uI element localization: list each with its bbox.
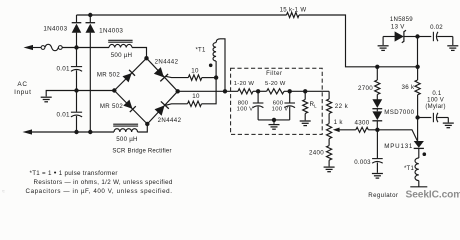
svg-text:2700: 2700 bbox=[358, 85, 373, 92]
junction: AC2 / cap column bbox=[74, 130, 78, 134]
resistor R7 2400 bbox=[327, 146, 332, 161]
junction: T1a return on main wire bbox=[223, 89, 227, 93]
svg-text:500 µH: 500 µH bbox=[111, 52, 133, 59]
junction: diode D2 top on rail bbox=[88, 13, 92, 17]
wire: 2400 to ground bbox=[328, 160, 330, 166]
svg-text:(Mylar): (Mylar) bbox=[425, 104, 445, 110]
svg-text:*T1: *T1 bbox=[404, 166, 415, 172]
ground: 0.003 bbox=[372, 173, 383, 175]
wire: lower gate up to T1a junction bbox=[202, 78, 217, 104]
svg-text:*T1: *T1 bbox=[195, 47, 206, 53]
svg-text:5-20 W: 5-20 W bbox=[265, 81, 286, 87]
AC input arrow (line 1) bbox=[24, 45, 34, 50]
wire: 2700 to MSD7000 bbox=[376, 95, 378, 100]
junction: bridge bottom node bbox=[145, 122, 149, 126]
junction: zener / 0.02 node bbox=[415, 34, 419, 38]
capacitor C4 600 100V bbox=[289, 91, 291, 102]
svg-text:1N5859: 1N5859 bbox=[390, 16, 413, 23]
transformer T1 primary winding bbox=[415, 158, 419, 181]
junction: C4 top bbox=[288, 89, 292, 93]
resistor R2 10 (lower gate) bbox=[188, 101, 202, 106]
ground: 2400 bbox=[324, 166, 335, 168]
wire: 4300 to MSD junction bbox=[368, 129, 377, 131]
wire: 2700 top lead bbox=[376, 67, 378, 80]
wire: MPU gate lead bbox=[377, 130, 417, 141]
wire: AC line 2 to bridge bottom node bbox=[138, 124, 148, 132]
svg-text:1 k: 1 k bbox=[334, 119, 344, 126]
pot wiper arrow bbox=[333, 128, 340, 133]
wire: R4 to RL and box exit bbox=[284, 90, 329, 92]
AC input arrow (line 2) bbox=[23, 129, 33, 134]
svg-text:100 V: 100 V bbox=[427, 97, 444, 103]
svg-text:1N4003: 1N4003 bbox=[99, 27, 123, 34]
wire: mid wire to bridge left node bbox=[77, 90, 115, 92]
svg-text:2N4442: 2N4442 bbox=[158, 117, 182, 124]
junction: bridge top node bbox=[144, 56, 148, 60]
svg-text:MR 502: MR 502 bbox=[97, 71, 120, 78]
wire: Q2 gate lead bbox=[166, 104, 188, 105]
wire: 22k to pot bbox=[328, 114, 330, 124]
svg-text:Filter: Filter bbox=[266, 71, 282, 77]
junction: gates / T1a winding bottom bbox=[214, 75, 218, 79]
wire: filter output down bbox=[328, 91, 330, 99]
wire: pot to 2400 bbox=[328, 139, 330, 146]
svg-text:15 k-1 W: 15 k-1 W bbox=[280, 6, 307, 13]
ground: zener anode bbox=[382, 37, 384, 46]
svg-text:Capacitors — in µF, 400 V, unl: Capacitors — in µF, 400 V, unless specif… bbox=[26, 188, 173, 195]
junction: bridge left node bbox=[112, 88, 116, 92]
diode D2 1N4003 bbox=[89, 15, 91, 22]
resistor R1 10 (upper gate) bbox=[188, 75, 202, 80]
diode D1 1N4003 bbox=[76, 15, 78, 22]
svg-text:22 k: 22 k bbox=[335, 103, 349, 110]
junction: 36k top on dc bus bbox=[415, 65, 419, 69]
svg-text:MR 502: MR 502 bbox=[100, 103, 123, 110]
ground: AC input bbox=[41, 96, 52, 98]
svg-text:1N4003: 1N4003 bbox=[43, 25, 67, 32]
junction: bridge right node bbox=[176, 89, 180, 93]
transformer T1 secondary winding bbox=[215, 61, 217, 78]
svg-text:MPU131: MPU131 bbox=[384, 143, 413, 150]
svg-text:2400: 2400 bbox=[309, 150, 324, 157]
svg-text:≈: ≈ bbox=[2, 189, 5, 195]
svg-text:36 k: 36 k bbox=[402, 84, 416, 91]
thyristor Q1 2N4442 (upper right arm) bbox=[153, 67, 168, 82]
ground: RL bbox=[300, 120, 311, 122]
fuse F1 bbox=[41, 46, 45, 50]
ground: 0.1 cap bbox=[443, 122, 454, 124]
resistor R3 1-20 W bbox=[238, 89, 253, 94]
inductor L2 500 uH bbox=[114, 129, 138, 132]
svg-text:100 V: 100 V bbox=[237, 107, 254, 113]
resistor 15 k-1 W on top rail bbox=[287, 12, 300, 17]
wire: filter cap bottom bus bbox=[258, 120, 290, 124]
capacitor C7 0.003 bbox=[376, 130, 378, 158]
svg-text:4300: 4300 bbox=[355, 120, 370, 127]
svg-text:500 µH: 500 µH bbox=[116, 136, 138, 143]
svg-text:0.003: 0.003 bbox=[354, 159, 371, 166]
svg-text:Resistors — in ohms, 1/2 W, un: Resistors — in ohms, 1/2 W, unless speci… bbox=[34, 179, 173, 186]
svg-text:0.1: 0.1 bbox=[432, 91, 442, 97]
wire: bridge arm left-top bbox=[114, 58, 146, 90]
wire: bridge arm top-right bbox=[147, 58, 178, 91]
diode D5 MSD7000 (upper) bbox=[372, 99, 382, 108]
svg-text:SCR Bridge Rectifier: SCR Bridge Rectifier bbox=[112, 148, 171, 154]
wire: Q1 gate lead bbox=[166, 76, 189, 77]
svg-text:AC: AC bbox=[17, 81, 27, 88]
junction: AC2 / D2 bbox=[88, 130, 92, 134]
wire: MPU anode lead bbox=[417, 118, 419, 142]
svg-text:0.01: 0.01 bbox=[57, 111, 71, 118]
ground: 0.02 bbox=[447, 45, 458, 47]
wire: upper gate to T1a bbox=[202, 77, 216, 79]
transistor Q3 MPU131 (PUT) bbox=[414, 141, 424, 148]
svg-text:13 V: 13 V bbox=[391, 23, 405, 30]
thyristor Q2 2N4442 (lower right arm) bbox=[154, 101, 169, 116]
svg-text:0.01: 0.01 bbox=[57, 66, 71, 73]
diode D4 MR502 (lower left arm) bbox=[123, 100, 136, 113]
capacitor C5 0.02 bbox=[418, 36, 432, 38]
filter enclosure (dashed box) bbox=[231, 68, 323, 134]
junction: MSD / 4300 / gate / 0.003 bbox=[375, 128, 379, 132]
capacitor C3 800 100V bbox=[257, 91, 259, 102]
resistor RL load bbox=[304, 91, 306, 99]
wire: bridge arm left-bottom bbox=[114, 91, 147, 125]
resistor R5 22 k bbox=[327, 99, 332, 114]
svg-text:100 V: 100 V bbox=[272, 107, 289, 113]
polarity dot T1b bbox=[423, 152, 427, 156]
diode D6 MSD7000 (lower) bbox=[372, 111, 382, 120]
junction: 2700 top on dc bus bbox=[375, 65, 379, 69]
resistor R4 5-20 W bbox=[267, 89, 284, 94]
svg-text:Regulator: Regulator bbox=[368, 192, 398, 199]
zener diode D7 1N5859 bbox=[395, 31, 404, 41]
potentiometer R6 1 k bbox=[327, 124, 332, 139]
svg-text:2N4442: 2N4442 bbox=[155, 58, 179, 65]
junction: RL top bbox=[303, 89, 307, 93]
svg-text:SeekIC.com: SeekIC.com bbox=[406, 190, 460, 201]
wire: main dc wire into filter bbox=[178, 90, 238, 92]
resistor R10 36 k bbox=[417, 67, 419, 80]
polarity dot T1a bbox=[209, 64, 213, 68]
svg-text:MSD7000: MSD7000 bbox=[384, 109, 414, 116]
wire: zener row left bbox=[383, 36, 395, 38]
svg-text:*T1 = 1 • 1 pulse transformer: *T1 = 1 • 1 pulse transformer bbox=[30, 168, 118, 177]
svg-text:0.02: 0.02 bbox=[430, 24, 443, 31]
svg-text:10: 10 bbox=[192, 93, 200, 100]
wire: AC line 1 bbox=[62, 48, 146, 59]
junction: 36k / 0.1 / MPU anode bbox=[415, 115, 419, 119]
junction: cap bus center bbox=[272, 118, 276, 122]
wire: zener node down to dc bus bbox=[417, 37, 419, 67]
wire: R3 to R4 bbox=[253, 90, 267, 92]
capacitor C1 0.01 bbox=[76, 48, 78, 67]
wire: bridge arm bottom-right bbox=[147, 91, 177, 124]
wire: top rail from diode column to right corner bbox=[77, 15, 378, 67]
resistor R8 4300 bbox=[356, 127, 369, 132]
diode D3 MR502 (upper left arm) bbox=[122, 70, 135, 83]
inductor L1 500 uH bbox=[109, 44, 132, 47]
svg-text:Input: Input bbox=[14, 89, 31, 96]
junction: AC1 / D1 / filter-cap column bbox=[74, 45, 78, 49]
svg-text:1-20 W: 1-20 W bbox=[234, 81, 255, 87]
capacitor C6 0.1 100V Mylar bbox=[418, 117, 432, 119]
resistor R9 2700 bbox=[375, 80, 380, 95]
capacitor C2 0.01 bbox=[76, 91, 78, 112]
wire: dc bus y=66.8 from 2700 to 36k bbox=[377, 66, 417, 68]
junction: C3 top bbox=[256, 89, 260, 93]
svg-text:10: 10 bbox=[191, 67, 199, 74]
junction: cap column mid bbox=[74, 88, 78, 92]
ground: filter caps bbox=[269, 124, 280, 126]
wire: stub to chassis ground bbox=[46, 91, 76, 97]
